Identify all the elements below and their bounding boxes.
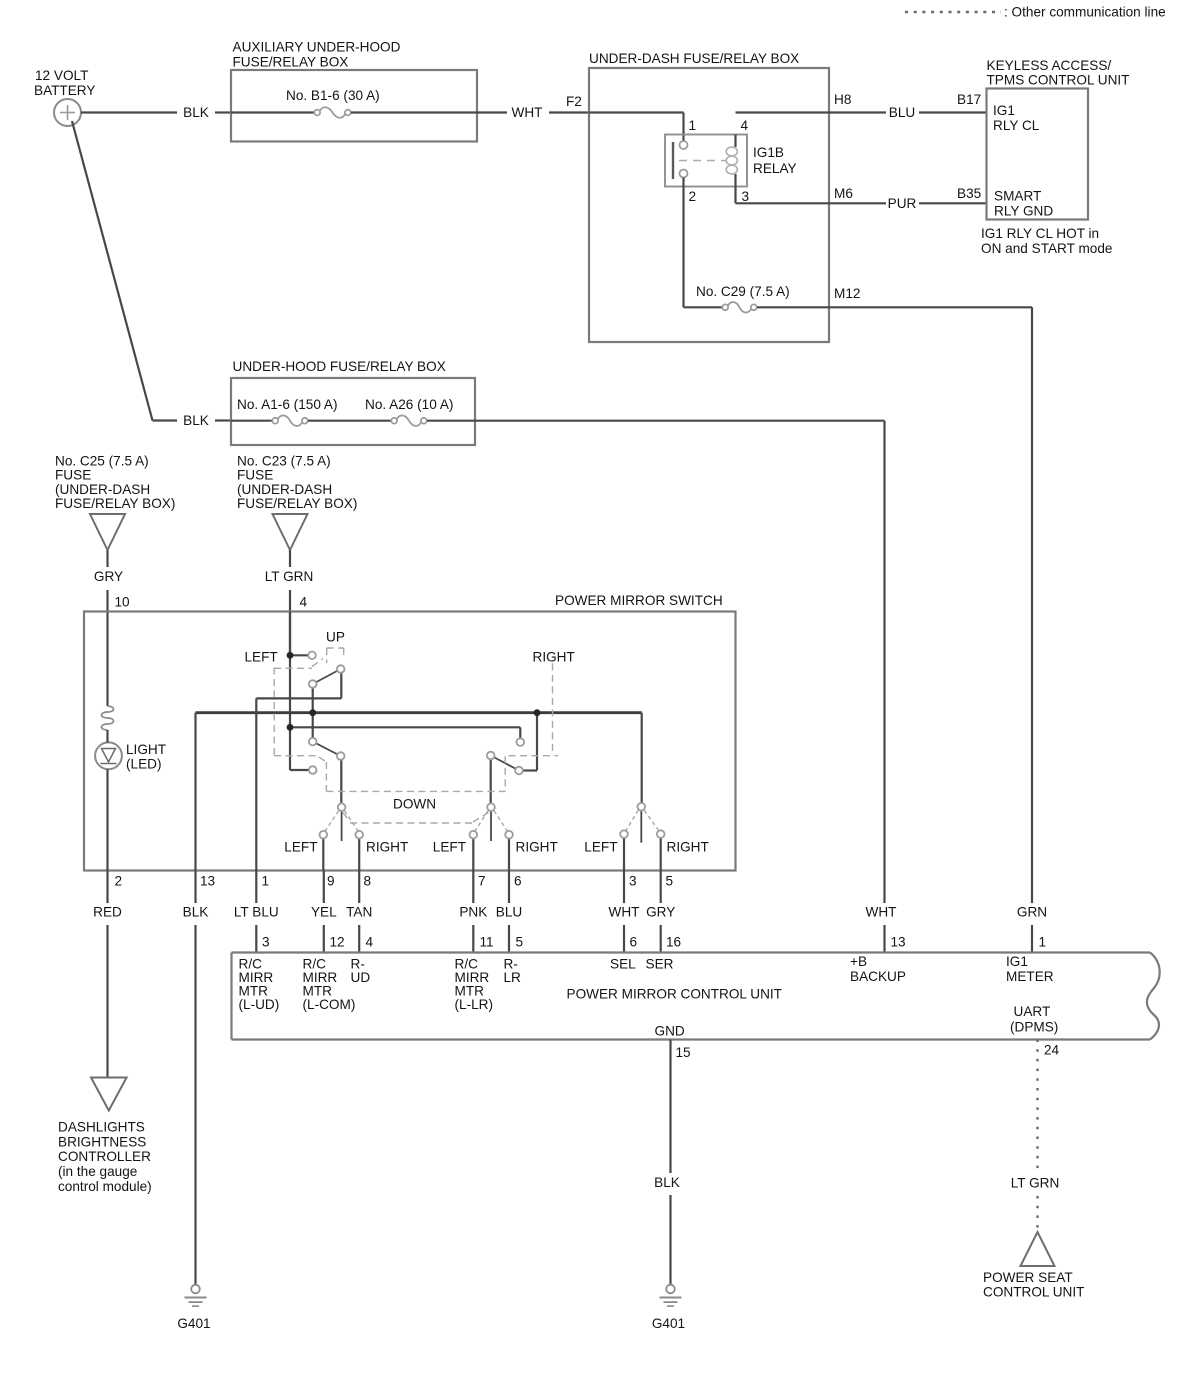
svg-text:LEFT: LEFT <box>584 840 617 855</box>
svg-text:BLK: BLK <box>183 413 209 428</box>
svg-text:BATTERY: BATTERY <box>34 83 95 98</box>
svg-text:3: 3 <box>262 935 270 950</box>
svg-text:POWER SEAT: POWER SEAT <box>983 1270 1073 1285</box>
svg-text:LT BLU: LT BLU <box>234 905 279 920</box>
svg-text:POWER MIRROR CONTROL UNIT: POWER MIRROR CONTROL UNIT <box>567 987 782 1002</box>
svg-text:No. C23 (7.5 A): No. C23 (7.5 A) <box>237 454 331 469</box>
svg-text:POWER MIRROR SWITCH: POWER MIRROR SWITCH <box>555 593 723 608</box>
svg-text:G401: G401 <box>177 1316 210 1331</box>
svg-text:No. A26 (10 A): No. A26 (10 A) <box>365 397 453 412</box>
svg-text:LEFT: LEFT <box>245 650 278 665</box>
svg-text:3: 3 <box>742 189 750 204</box>
svg-text:PNK: PNK <box>459 905 487 920</box>
svg-text:LEFT: LEFT <box>433 840 466 855</box>
svg-text:UNDER-DASH FUSE/RELAY BOX: UNDER-DASH FUSE/RELAY BOX <box>589 51 799 66</box>
svg-text:1: 1 <box>689 118 697 133</box>
svg-text:control module): control module) <box>58 1179 152 1194</box>
svg-text:RIGHT: RIGHT <box>667 840 709 855</box>
svg-text:BLK: BLK <box>183 905 209 920</box>
svg-text:GND: GND <box>655 1024 685 1039</box>
svg-text:LT GRN: LT GRN <box>1011 1176 1060 1191</box>
svg-text:(L-UD): (L-UD) <box>239 997 280 1012</box>
svg-text:LR: LR <box>504 970 522 985</box>
svg-text:DOWN: DOWN <box>393 797 436 812</box>
svg-text:11: 11 <box>480 935 494 950</box>
svg-text:5: 5 <box>516 935 524 950</box>
svg-text:4: 4 <box>366 935 374 950</box>
svg-text:FUSE/RELAY BOX): FUSE/RELAY BOX) <box>55 496 175 511</box>
svg-text:16: 16 <box>666 935 681 950</box>
svg-text:F2: F2 <box>566 94 582 109</box>
svg-text:8: 8 <box>364 874 372 889</box>
svg-text:2: 2 <box>689 189 697 204</box>
svg-text:SER: SER <box>646 957 674 972</box>
svg-text:FUSE: FUSE <box>237 468 273 483</box>
svg-text:7: 7 <box>478 874 486 889</box>
svg-text:B35: B35 <box>957 186 981 201</box>
svg-text:KEYLESS ACCESS/: KEYLESS ACCESS/ <box>987 58 1112 73</box>
svg-text:No. C25 (7.5 A): No. C25 (7.5 A) <box>55 454 149 469</box>
svg-text:TAN: TAN <box>346 905 372 920</box>
svg-text:RED: RED <box>93 905 122 920</box>
svg-text:No. C29 (7.5 A): No. C29 (7.5 A) <box>696 284 790 299</box>
svg-text:LT GRN: LT GRN <box>265 569 314 584</box>
svg-text:(UNDER-DASH: (UNDER-DASH <box>55 482 150 497</box>
svg-text:+B: +B <box>850 954 867 969</box>
svg-text:(LED): (LED) <box>126 757 162 772</box>
svg-text:UNDER-HOOD FUSE/RELAY BOX: UNDER-HOOD FUSE/RELAY BOX <box>233 359 446 374</box>
svg-text:No. A1-6 (150 A): No. A1-6 (150 A) <box>237 397 338 412</box>
svg-text:PUR: PUR <box>888 196 917 211</box>
svg-text:BLK: BLK <box>183 105 209 120</box>
svg-text:YEL: YEL <box>311 905 337 920</box>
svg-text:(UNDER-DASH: (UNDER-DASH <box>237 482 332 497</box>
svg-text:5: 5 <box>666 874 674 889</box>
svg-text:13: 13 <box>891 935 906 950</box>
svg-text:(in the gauge: (in the gauge <box>58 1164 137 1179</box>
svg-text:GRN: GRN <box>1017 905 1047 920</box>
svg-text:FUSE/RELAY BOX: FUSE/RELAY BOX <box>233 55 349 70</box>
svg-text:CONTROL UNIT: CONTROL UNIT <box>983 1285 1084 1300</box>
svg-text:GRY: GRY <box>94 569 123 584</box>
svg-text:3: 3 <box>629 874 637 889</box>
svg-text:IG1: IG1 <box>1006 954 1028 969</box>
svg-text:4: 4 <box>300 595 308 610</box>
svg-text:No. B1-6 (30 A): No. B1-6 (30 A) <box>286 88 380 103</box>
svg-text:1: 1 <box>1039 935 1047 950</box>
svg-text:6: 6 <box>630 935 638 950</box>
svg-text:1: 1 <box>262 874 270 889</box>
svg-text:12 VOLT: 12 VOLT <box>35 68 88 83</box>
svg-text:LIGHT: LIGHT <box>126 742 166 757</box>
svg-text:IG1B: IG1B <box>753 145 784 160</box>
svg-text:METER: METER <box>1006 969 1054 984</box>
svg-text:G401: G401 <box>652 1316 685 1331</box>
svg-text:4: 4 <box>741 118 749 133</box>
svg-text:BLU: BLU <box>889 105 915 120</box>
svg-text:ON and START mode: ON and START mode <box>981 241 1112 256</box>
svg-text:FUSE/RELAY BOX): FUSE/RELAY BOX) <box>237 496 357 511</box>
svg-text:M12: M12 <box>834 286 860 301</box>
svg-text:M6: M6 <box>834 186 853 201</box>
svg-text:(L-LR): (L-LR) <box>455 997 494 1012</box>
svg-text:UP: UP <box>326 630 345 645</box>
svg-text:(DPMS): (DPMS) <box>1010 1020 1058 1035</box>
svg-text:RIGHT: RIGHT <box>533 650 575 665</box>
svg-text:H8: H8 <box>834 92 851 107</box>
svg-text:WHT: WHT <box>512 105 543 120</box>
svg-text:FUSE: FUSE <box>55 468 91 483</box>
svg-text:SEL: SEL <box>610 957 636 972</box>
svg-text:RIGHT: RIGHT <box>516 840 558 855</box>
svg-text:12: 12 <box>330 935 345 950</box>
svg-text:GRY: GRY <box>646 905 675 920</box>
svg-text:CONTROLLER: CONTROLLER <box>58 1149 151 1164</box>
svg-text:IG1: IG1 <box>993 103 1015 118</box>
svg-text:RELAY: RELAY <box>753 161 797 176</box>
svg-text:13: 13 <box>200 874 215 889</box>
svg-text:AUXILIARY UNDER-HOOD: AUXILIARY UNDER-HOOD <box>233 40 401 55</box>
svg-text:9: 9 <box>327 874 335 889</box>
svg-text:6: 6 <box>514 874 522 889</box>
svg-text:BACKUP: BACKUP <box>850 969 906 984</box>
svg-text:IG1 RLY CL HOT in: IG1 RLY CL HOT in <box>981 226 1099 241</box>
svg-text:24: 24 <box>1044 1043 1060 1058</box>
svg-text:BRIGHTNESS: BRIGHTNESS <box>58 1134 146 1149</box>
svg-text:RLY GND: RLY GND <box>994 204 1053 219</box>
svg-text:WHT: WHT <box>609 905 640 920</box>
svg-text:BLK: BLK <box>654 1175 680 1190</box>
svg-text:WHT: WHT <box>866 905 897 920</box>
svg-text:BLU: BLU <box>496 905 522 920</box>
svg-text:LEFT: LEFT <box>284 840 317 855</box>
svg-text:2: 2 <box>115 874 123 889</box>
svg-text:: Other communication line: : Other communication line <box>1004 5 1166 20</box>
svg-text:RIGHT: RIGHT <box>366 840 408 855</box>
svg-text:15: 15 <box>676 1045 691 1060</box>
svg-text:DASHLIGHTS: DASHLIGHTS <box>58 1119 145 1134</box>
svg-text:TPMS CONTROL UNIT: TPMS CONTROL UNIT <box>987 73 1130 88</box>
svg-text:SMART: SMART <box>994 189 1041 204</box>
svg-text:UART: UART <box>1014 1004 1051 1019</box>
svg-text:B17: B17 <box>957 92 981 107</box>
svg-text:RLY CL: RLY CL <box>993 118 1040 133</box>
svg-text:UD: UD <box>351 970 371 985</box>
svg-text:10: 10 <box>115 595 131 610</box>
svg-text:(L-COM): (L-COM) <box>303 997 356 1012</box>
